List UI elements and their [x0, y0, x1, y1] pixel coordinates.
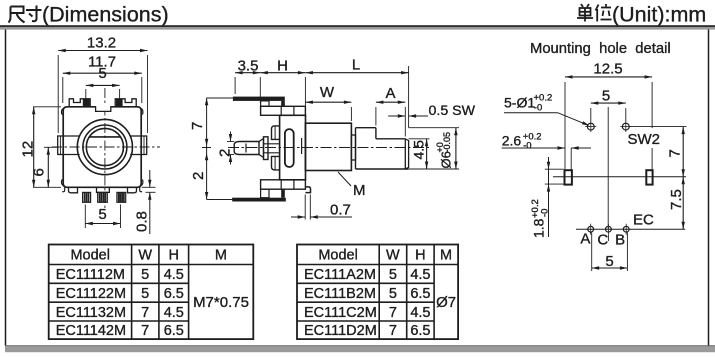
svg-text:(Dimensions): (Dimensions)	[42, 3, 169, 27]
svg-text:EC11142M: EC11142M	[56, 323, 126, 339]
svg-text:SW2: SW2	[628, 131, 661, 148]
svg-text:5: 5	[98, 206, 106, 223]
svg-text:5: 5	[141, 286, 149, 302]
svg-text:12.5: 12.5	[593, 61, 622, 78]
svg-text:7: 7	[666, 149, 683, 157]
svg-text:5: 5	[602, 88, 610, 105]
svg-text:EC11132M: EC11132M	[56, 305, 126, 321]
svg-text:EC11122M: EC11122M	[56, 286, 126, 302]
svg-text:A: A	[385, 85, 395, 102]
svg-text:5: 5	[141, 267, 149, 283]
svg-text:2: 2	[190, 172, 207, 180]
svg-text:M7*0.75: M7*0.75	[193, 294, 249, 311]
svg-text:5-Ø1: 5-Ø1	[504, 95, 535, 111]
svg-text:Mounting hole detail: Mounting hole detail	[530, 41, 671, 57]
svg-text:2: 2	[216, 149, 233, 157]
svg-text:6: 6	[31, 168, 48, 176]
svg-text:5: 5	[389, 286, 397, 302]
svg-text:1.8: 1.8	[531, 218, 547, 238]
svg-text:-0.05: -0.05	[442, 132, 452, 153]
svg-text:EC11112M: EC11112M	[56, 267, 125, 283]
svg-text:0.8: 0.8	[133, 211, 150, 232]
svg-text:6.5: 6.5	[164, 323, 184, 339]
svg-text:M: M	[353, 182, 366, 199]
svg-text:12: 12	[20, 141, 37, 158]
svg-text:L: L	[352, 57, 360, 74]
svg-text:7: 7	[389, 305, 397, 321]
svg-text:W: W	[138, 248, 152, 264]
svg-text:H: H	[169, 248, 179, 264]
svg-text:-0: -0	[534, 103, 542, 114]
svg-text:4.5: 4.5	[410, 140, 426, 160]
svg-text:0.7: 0.7	[330, 202, 351, 219]
svg-text:EC111A2M: EC111A2M	[304, 267, 376, 283]
svg-text:7.5: 7.5	[668, 189, 685, 210]
svg-text:6.5: 6.5	[410, 286, 430, 302]
svg-text:C: C	[597, 232, 608, 249]
svg-text:Ø6: Ø6	[439, 151, 454, 168]
svg-text:7: 7	[189, 122, 206, 130]
svg-text:4.5: 4.5	[164, 305, 184, 321]
svg-text:B: B	[615, 232, 625, 249]
svg-text:6.5: 6.5	[164, 286, 184, 302]
svg-text:7: 7	[389, 323, 397, 339]
svg-text:EC111B2M: EC111B2M	[304, 286, 376, 302]
svg-text:-0: -0	[540, 209, 551, 217]
svg-text:5: 5	[389, 267, 397, 283]
svg-text:A: A	[580, 231, 590, 248]
svg-text:4.5: 4.5	[410, 305, 430, 321]
svg-text:Ø7: Ø7	[436, 294, 456, 311]
svg-text:EC111D2M: EC111D2M	[304, 323, 377, 339]
svg-text:7: 7	[141, 323, 149, 339]
svg-text:H: H	[277, 58, 288, 75]
svg-text:-0: -0	[523, 140, 531, 151]
svg-text:7: 7	[141, 305, 149, 321]
svg-text:M: M	[215, 248, 227, 264]
svg-text:M: M	[440, 248, 452, 264]
svg-text:EC111C2M: EC111C2M	[304, 305, 377, 321]
svg-text:6.5: 6.5	[410, 323, 430, 339]
svg-text:0.5 SW: 0.5 SW	[429, 103, 476, 119]
svg-text:(Unit):mm: (Unit):mm	[612, 3, 706, 27]
svg-text:3.5: 3.5	[238, 58, 259, 75]
svg-text:5: 5	[98, 65, 106, 82]
svg-text:4.5: 4.5	[410, 267, 430, 283]
svg-text:4.5: 4.5	[164, 267, 184, 283]
svg-text:13.2: 13.2	[87, 35, 116, 52]
svg-text:H: H	[415, 248, 425, 264]
svg-text:2.6: 2.6	[502, 133, 522, 149]
svg-text:5: 5	[605, 253, 613, 270]
svg-text:W: W	[386, 248, 400, 264]
svg-text:W: W	[320, 84, 335, 101]
svg-text:Model: Model	[318, 248, 358, 264]
svg-text:EC: EC	[633, 212, 654, 229]
svg-text:Model: Model	[70, 248, 110, 264]
